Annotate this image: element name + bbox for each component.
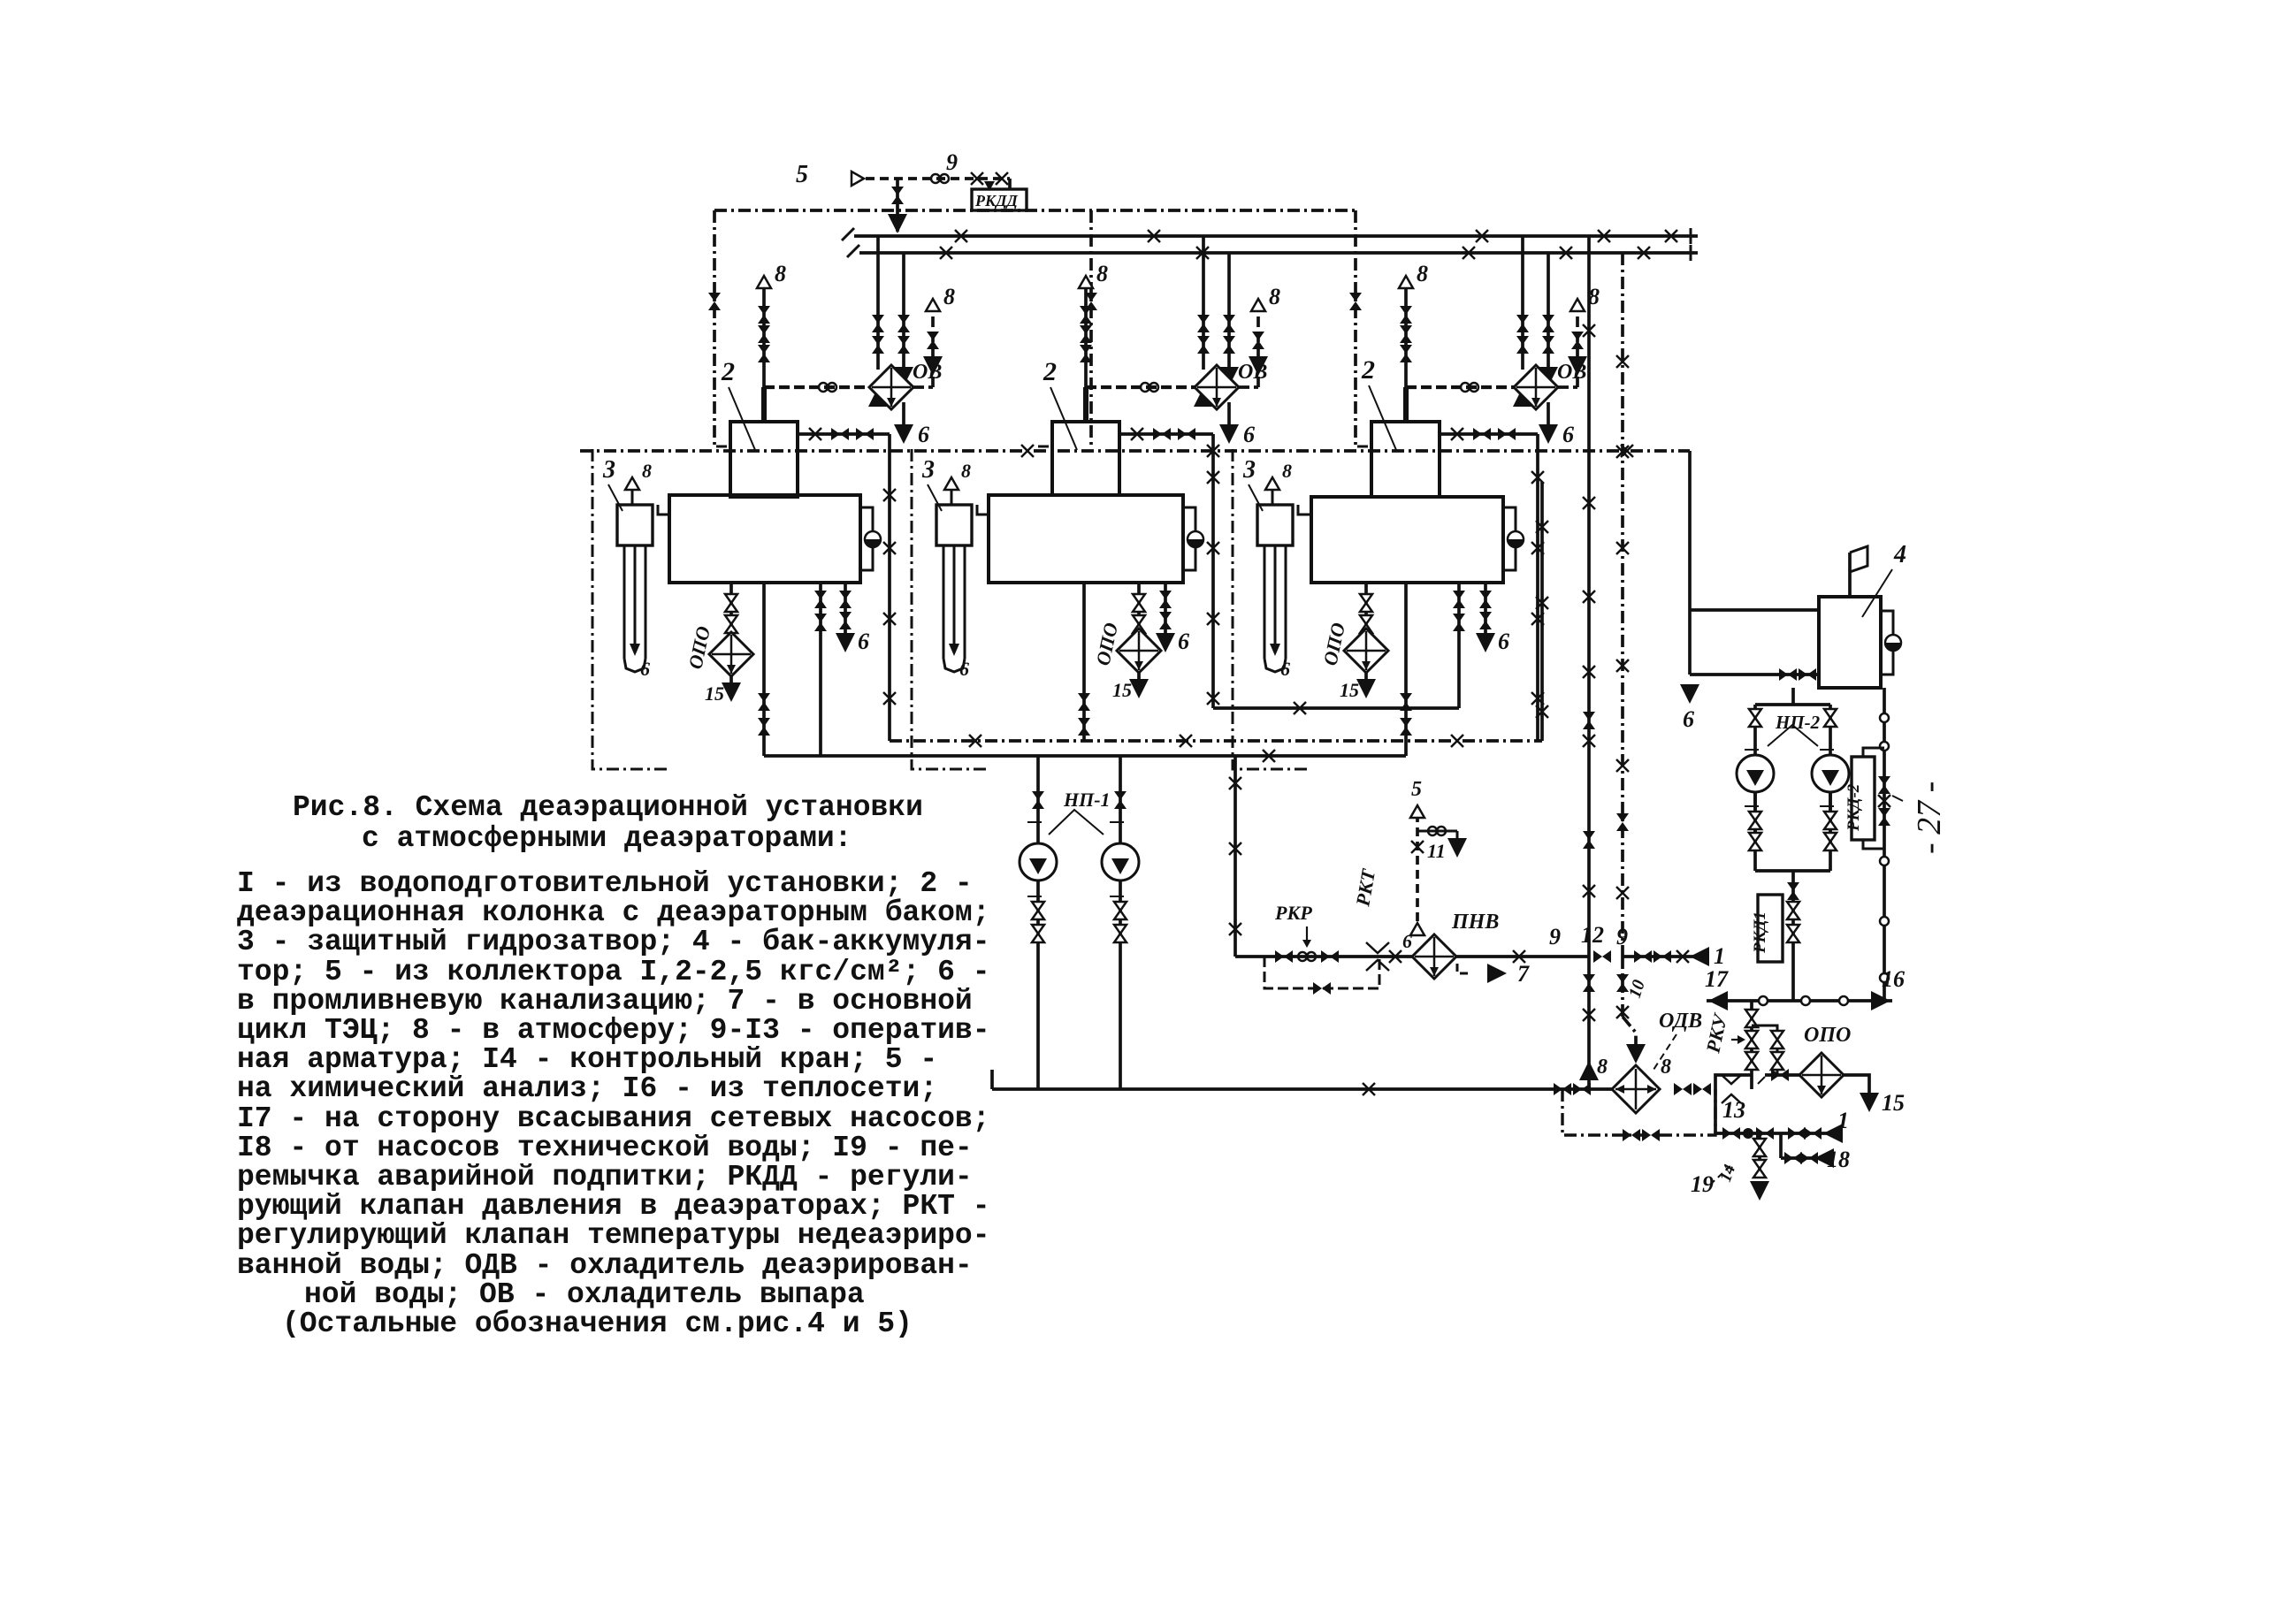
strainer marks [1722, 1075, 1741, 1103]
pointer 4 [1862, 569, 1892, 617]
seal drain arrow [1270, 644, 1280, 656]
seal tube inner [634, 545, 637, 652]
valve [758, 306, 770, 324]
wire: vent riser 8 column 2 [1084, 288, 1088, 387]
x-valve on drop [883, 542, 896, 554]
svg-text:I8 - от насосов технической во: I8 - от насосов технической воды; I9 - п… [237, 1132, 973, 1164]
valve [897, 336, 910, 354]
seal U bottom [943, 659, 965, 672]
wire to ОПО [1765, 1073, 1799, 1077]
svg-text:2: 2 [1361, 355, 1375, 385]
valve [1542, 336, 1554, 354]
wire: ОДВ to РКУ/ОПО [1715, 1075, 1752, 1089]
wire: РКУ drop [1750, 1001, 1753, 1089]
x-valve on header1 [1665, 230, 1677, 242]
arrow down on vent riser [923, 356, 943, 376]
valve [725, 594, 737, 612]
corner up at left end [990, 1070, 994, 1089]
valve [1400, 325, 1412, 343]
accumulator tank 4 [1819, 597, 1881, 688]
seal tube outer R [645, 545, 647, 659]
wire corner [1456, 831, 1459, 842]
wire: feed-water collector [764, 754, 1406, 758]
suction valve [1114, 791, 1127, 809]
РКУ bypass [1752, 1025, 1777, 1075]
wire: deaerated water down to tank4 [1688, 451, 1692, 675]
wire: НП-2 discharge [1829, 792, 1832, 871]
wire ОПО drain [1137, 673, 1141, 682]
wire: bottom line to ОДВ [992, 1087, 1614, 1091]
arrow up into ОВ [1513, 387, 1532, 407]
deaerator tank 2 (item 2) [989, 495, 1183, 583]
РКД-2 bypass bottom [1863, 840, 1884, 849]
x-valve on header1 [1148, 230, 1160, 242]
x-valve on header2 [1560, 247, 1572, 259]
valve [1542, 315, 1554, 332]
arrow drain [1750, 1181, 1769, 1201]
deaerator tank 1 (item 2) [669, 495, 860, 583]
svg-text:6: 6 [640, 658, 650, 680]
wire: feed into column 3 top [1403, 387, 1409, 422]
valve on drop [1085, 293, 1097, 310]
wire: НП-2 discharge [1753, 792, 1757, 871]
wire: drop from column outlet [1536, 434, 1539, 741]
wire: tank 2 to seal [977, 505, 989, 515]
svg-text:5: 5 [1411, 778, 1422, 801]
x-valve on link [1294, 702, 1306, 714]
pointer line label2 unit 1 [729, 387, 755, 450]
bypass valve [1313, 982, 1331, 995]
level gauge tank 3 [1508, 531, 1524, 547]
svg-text:6: 6 [1178, 629, 1189, 654]
arrow onto steam header [888, 214, 907, 233]
wire: tank 3 to seal [1298, 505, 1311, 515]
РКУ valve [1745, 1031, 1758, 1048]
seal tube outer L [1264, 545, 1266, 659]
svg-text:Рис.8. Схема деаэрационной уст: Рис.8. Схема деаэрационной установки [293, 791, 923, 824]
vent triangle 8 [1251, 299, 1265, 311]
valve on riser [1616, 813, 1629, 831]
x-valve [1207, 445, 1219, 457]
wire: tank4 riser to line 16 [1883, 688, 1886, 1001]
valve [1078, 718, 1090, 736]
seal vent line [1272, 490, 1274, 505]
valve [927, 332, 939, 349]
wire: ОВ outlet to vent [913, 385, 933, 389]
wire: РКТ branch up [1416, 818, 1419, 935]
svg-text:тор; 5 - из коллектора I,2-2,5: тор; 5 - из коллектора I,2-2,5 кгс/см²; … [237, 956, 990, 988]
valve [1779, 668, 1797, 681]
svg-text:6: 6 [1243, 422, 1255, 447]
raw water heater ПНВ [1412, 934, 1456, 979]
x-valve 11 [1411, 841, 1424, 853]
pointer ОДВ [1654, 1034, 1676, 1070]
arrow ОПО drain [1129, 679, 1149, 698]
hydro seal box 3 (item 3) [1257, 505, 1293, 545]
valve [839, 612, 852, 629]
bypass valve [1623, 1129, 1640, 1141]
valve on drop [708, 293, 721, 310]
svg-text:РКДД: РКДД [974, 192, 1018, 210]
level gauge tank 1 [865, 531, 881, 547]
pointer 3 [1249, 484, 1263, 511]
seal tube outer R [1285, 545, 1287, 659]
valve [1654, 950, 1671, 963]
x-valve [1451, 428, 1463, 440]
wire: branch down to header [896, 179, 899, 232]
svg-text:РКД-2: РКД-2 [1844, 783, 1863, 832]
tick [1110, 896, 1124, 897]
svg-text:на химический анализ; I6 - из: на химический анализ; I6 - из теплосети; [237, 1072, 937, 1105]
svg-text:1: 1 [1714, 943, 1725, 969]
x-valve on drop [1531, 542, 1544, 554]
svg-text:8: 8 [1597, 1056, 1608, 1079]
valve [1153, 428, 1171, 440]
valve [1479, 591, 1492, 608]
valve [1674, 1083, 1692, 1095]
valve [1479, 612, 1492, 629]
valve [1473, 428, 1491, 440]
valve [1080, 325, 1092, 343]
РКД-2 valve [1878, 808, 1890, 826]
wire: header1 drop to ОВ 1 [876, 236, 880, 370]
discharge valve [1032, 902, 1044, 919]
seal drain arrow [630, 644, 640, 656]
vent triangle 8 [1399, 276, 1413, 288]
x-valve on drop [1531, 692, 1544, 705]
svg-text:15: 15 [1340, 679, 1359, 701]
valve [856, 428, 874, 440]
wire: dash-dot drop unit2 [1089, 210, 1093, 446]
seal tube inner [953, 545, 956, 652]
valve [1749, 833, 1761, 850]
end tick header2 [847, 245, 859, 257]
wire: ОВ outlet to vent [1558, 385, 1577, 389]
tick [1820, 749, 1834, 751]
svg-text:НП-1: НП-1 [1063, 789, 1111, 811]
wire: vent riser 8 column 3 [1404, 288, 1408, 387]
pointer line label2 unit 3 [1369, 385, 1396, 450]
svg-text:6: 6 [1683, 706, 1694, 732]
wire ОПО drain [1364, 673, 1368, 682]
seal drain arrow [949, 644, 959, 656]
x-valve on collector [1451, 735, 1463, 747]
arrow from item 1 [1690, 947, 1709, 966]
x-valve on header1 [955, 230, 967, 242]
x-valve on drop [1207, 692, 1219, 705]
x-valve on header2 [1196, 247, 1209, 259]
wire: tank 1 to ОПО sampler [729, 583, 733, 635]
bypass valve [1642, 1129, 1660, 1141]
sample cooler ОПО unit 2 [1117, 629, 1161, 673]
wire: tank drain 2 [819, 583, 822, 756]
flange on riser [1880, 917, 1889, 926]
РКД-2 box [1852, 757, 1875, 840]
end tick header2 right [1690, 245, 1692, 261]
wire: tank drain to sewer [844, 583, 847, 638]
svg-text:8: 8 [775, 261, 786, 286]
svg-text:8: 8 [1282, 460, 1292, 482]
svg-text:РКД1: РКД1 [1751, 911, 1769, 954]
svg-text:ванной воды; ОДВ - охладитель: ванной воды; ОДВ - охладитель деаэрирова… [237, 1249, 973, 1282]
svg-text:(Остальные обозначения см.рис.: (Остальные обозначения см.рис.4 и 5) [282, 1308, 913, 1340]
valve [1178, 428, 1195, 440]
svg-text:8: 8 [961, 460, 971, 482]
valve [1573, 1083, 1591, 1095]
x-valve on header2 [940, 247, 952, 259]
dash-dot enclosure unit 1 [592, 449, 670, 769]
tick [716, 446, 727, 448]
РКД-1 valve [1787, 925, 1799, 942]
svg-text:с атмосферными деаэраторами:: с атмосферными деаэраторами: [362, 822, 852, 855]
wire: НП-2 discharge manifold [1755, 869, 1830, 873]
x-valve [1389, 950, 1401, 963]
tick [1027, 896, 1042, 897]
svg-text:15: 15 [1882, 1090, 1905, 1116]
valve on branch [891, 187, 904, 204]
sample cooler ОПО unit 1 [709, 632, 753, 676]
arrow to 7 [1487, 964, 1507, 983]
svg-text:6: 6 [918, 422, 929, 447]
РКР valve body [1298, 952, 1316, 961]
x-valve on riser [1616, 355, 1629, 368]
valve [1360, 615, 1372, 633]
deaeration column 3 (item 2) [1371, 422, 1440, 497]
wire: tank 2 drain to collector [1082, 583, 1086, 741]
valve 14 [1753, 1139, 1766, 1156]
svg-text:3: 3 [921, 456, 935, 484]
x-valve on riser [1616, 446, 1629, 458]
wire: tank 3 drain to collector [1404, 583, 1408, 756]
svg-text:6: 6 [959, 658, 969, 680]
svg-text:17: 17 [1705, 966, 1729, 992]
svg-text:3: 3 [602, 456, 615, 484]
x-valve on drop [1207, 542, 1219, 554]
svg-text:ОПО: ОПО [1804, 1024, 1851, 1047]
x-valve after ПНВ [1513, 950, 1525, 963]
valve pair on vapour line [1461, 383, 1478, 392]
svg-text:6: 6 [1498, 629, 1509, 654]
wire: into tank4 bottom-left [1690, 673, 1819, 676]
pointer НП-1 [1049, 810, 1104, 835]
svg-text:ОДВ: ОДВ [1659, 1010, 1702, 1033]
svg-text:I - из водоподготовительной ус: I - из водоподготовительной установки; 2… [237, 867, 973, 900]
valve [814, 614, 827, 631]
wire: tank drain to sewer [1484, 583, 1487, 638]
svg-text:8: 8 [642, 460, 652, 482]
РКР valve b [1321, 950, 1339, 963]
x-valve on drop [1531, 613, 1544, 625]
valve 10 [1616, 974, 1629, 992]
valve [758, 345, 770, 362]
arrow up into ОВ [868, 387, 888, 407]
svg-text:ная арматура; I4 - контрольный: ная арматура; I4 - контрольный кран; 5 - [237, 1043, 937, 1076]
svg-text:I7 - на сторону всасывания сет: I7 - на сторону всасывания сетевых насос… [237, 1102, 990, 1135]
valve [1159, 612, 1172, 629]
wire: pump НП-1.2 suction [1119, 756, 1122, 843]
valve [1554, 1083, 1571, 1095]
valve [897, 315, 910, 332]
svg-text:9: 9 [946, 149, 958, 175]
arrow to 17 [1708, 991, 1728, 1010]
wire: riser down to ОДВ line [1587, 957, 1591, 1089]
deaerated water cooler ОДВ [1612, 1065, 1660, 1113]
wire: to main cycle 7 [1457, 964, 1470, 973]
valve [1771, 1069, 1789, 1081]
valve [1824, 833, 1837, 850]
wire: riser right end of collector [1540, 482, 1544, 741]
arrow up into ОВ [1194, 387, 1213, 407]
wire: level gauge loop tank 1 [860, 507, 873, 570]
svg-text:ной воды; ОВ - охладитель выпа: ной воды; ОВ - охладитель выпара [304, 1278, 865, 1311]
РКД-2 bypass top [1863, 748, 1884, 757]
svg-text:3: 3 [1242, 456, 1256, 484]
gauge loop tank4 [1881, 611, 1893, 675]
valve [758, 325, 770, 343]
wire: line 13 [1715, 1132, 1832, 1135]
wire: НП-2 suction leg [1753, 705, 1757, 843]
wire: vent riser 8 right [1256, 311, 1260, 387]
vent condenser ОВ unit 2 [1195, 365, 1239, 409]
bypass valve [1771, 1031, 1783, 1048]
РКУ arrow stem [1731, 1039, 1744, 1041]
arrow drain 6 [1680, 684, 1699, 704]
wire: down to line 13 [1714, 1089, 1717, 1133]
svg-text:15: 15 [705, 682, 724, 705]
valve [1722, 1127, 1740, 1140]
svg-text:2: 2 [721, 357, 735, 386]
pointer 3 [608, 484, 622, 511]
wire: long dash-dot deaerated water line [580, 449, 1690, 453]
svg-text:16: 16 [1882, 966, 1905, 992]
arrow down into РКДД [984, 181, 995, 191]
valve [1252, 332, 1264, 349]
wire: vent riser 8 right [931, 311, 935, 387]
svg-text:в промливневую канализацию; 7: в промливневую канализацию; 7 - в основн… [237, 985, 973, 1018]
svg-text:8: 8 [1269, 284, 1280, 309]
wire: level gauge loop tank 2 [1183, 507, 1195, 570]
svg-text:8: 8 [1096, 261, 1108, 286]
wire: vapour line column 1 to ОВ [764, 385, 869, 389]
wire: pump НП-1.2 discharge [1119, 881, 1122, 1089]
flag [1850, 546, 1867, 572]
РКР stem [1306, 926, 1308, 941]
svg-text:рующий клапан давления в деаэр: рующий клапан давления в деаэраторах; РК… [237, 1190, 990, 1223]
arrow drain ОВ [1219, 424, 1239, 444]
seal tube outer R [964, 545, 966, 659]
svg-text:13: 13 [1722, 1097, 1745, 1123]
arrow up [1579, 1061, 1599, 1080]
valve [1749, 812, 1761, 829]
discharge valve [1032, 925, 1044, 942]
x-valve on riser [1536, 705, 1548, 718]
arrow down [1447, 838, 1467, 858]
wire: raw water line to ПНВ [1235, 955, 1589, 958]
valve [725, 615, 737, 633]
wire: header2 drop to ОВ 2 [1227, 253, 1231, 367]
valve [1453, 614, 1465, 631]
x-valve on drop [1207, 471, 1219, 484]
valve [1223, 336, 1235, 354]
valve pair on vapour line [1141, 383, 1158, 392]
svg-text:1: 1 [1837, 1108, 1849, 1133]
drain arrow 6 [1476, 633, 1495, 652]
flange on line [1801, 996, 1810, 1005]
tick [1745, 805, 1759, 807]
pump НП-1.2 [1102, 843, 1139, 881]
end tick header1 [842, 228, 854, 240]
arrow from 18 [1814, 1148, 1834, 1168]
valve on riser [1583, 831, 1595, 849]
wire: branch right [1417, 830, 1457, 833]
svg-text:8: 8 [1661, 1056, 1671, 1079]
x-valve [1583, 1009, 1595, 1021]
valve [1745, 1052, 1758, 1070]
wire: tank 2 to ОПО sampler [1137, 583, 1141, 631]
valve [1634, 950, 1652, 963]
svg-text:9: 9 [1549, 924, 1561, 949]
valve [1453, 591, 1465, 608]
wire: ОВ drain [902, 402, 905, 428]
valve [1516, 315, 1529, 332]
arrow into ОДВ [1626, 1044, 1646, 1064]
wire: corner up to tank3 drain [1457, 637, 1461, 708]
valve [758, 718, 770, 736]
flange on riser [1880, 857, 1889, 865]
wire: drain link line [1213, 706, 1459, 710]
wire: riser 9 from header2 [1621, 253, 1624, 957]
vent condenser ОВ unit 3 [1514, 365, 1558, 409]
wire: feed into column 2 top [1083, 387, 1088, 422]
valve 14 [1753, 1160, 1766, 1178]
wire ОПО drain [1844, 1075, 1869, 1096]
wire: line 17-16 [1707, 999, 1892, 1003]
pump НП-2 [1812, 755, 1849, 792]
pointer line label2 unit 2 [1050, 387, 1077, 450]
seal vent triangle [1265, 477, 1279, 490]
valve [1159, 591, 1172, 608]
wire: НП-2 to line 17 [1791, 871, 1795, 1001]
valve [872, 315, 884, 332]
x-valve on drop [883, 692, 896, 705]
wire: tank4 to НП-2 [1791, 688, 1795, 705]
wire: branch 18 [1779, 1133, 1783, 1158]
level gauge tank 2 [1188, 531, 1203, 547]
valve [1571, 332, 1584, 349]
valve [1080, 345, 1092, 362]
wire: vent riser 8 right [1576, 311, 1579, 387]
valve [814, 591, 827, 608]
svg-text:ремычка аварийной подпитки; РК: ремычка аварийной подпитки; РКДД - регул… [237, 1161, 973, 1193]
wire: pump НП-1.1 discharge [1036, 881, 1040, 1089]
arrow down on vent riser [1249, 356, 1268, 376]
arrow down into ОВ [1539, 367, 1558, 386]
valve [1788, 1127, 1806, 1140]
seal tube outer L [623, 545, 626, 659]
arrow drain ОВ [894, 424, 913, 444]
svg-text:7: 7 [1517, 961, 1530, 987]
svg-text:деаэрационная колонка с деаэра: деаэрационная колонка с деаэраторным бак… [237, 896, 990, 929]
wire: drop from column outlet [888, 434, 891, 741]
arrow down on vent riser [1568, 356, 1587, 376]
arrow from 1 [1823, 1124, 1843, 1143]
wire: drain collector (dash-dot) [890, 739, 1542, 743]
x-valve [1229, 842, 1241, 855]
wire: tank 1 drain to collector [762, 583, 766, 756]
pump НП-1.1 [1020, 843, 1057, 881]
x-valve on header1 [1476, 230, 1488, 242]
deaeration column 2 (item 2) [1052, 422, 1119, 495]
